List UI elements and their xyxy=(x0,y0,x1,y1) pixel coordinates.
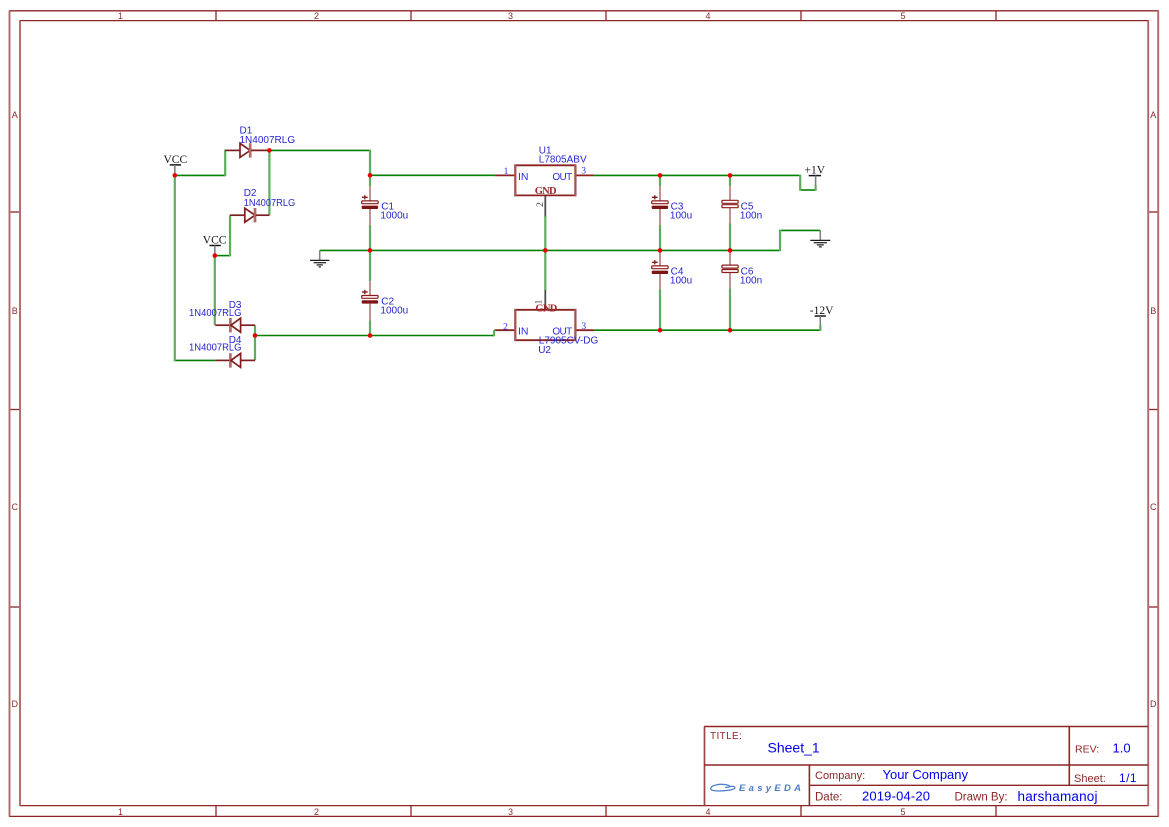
svg-text:REV:: REV: xyxy=(1075,744,1099,756)
svg-text:100u: 100u xyxy=(670,276,692,287)
junction node C5 top xyxy=(728,173,733,178)
title block xyxy=(704,727,1148,806)
svg-text:100u: 100u xyxy=(670,211,692,222)
junction node C4 bottom xyxy=(658,328,663,333)
ground symbol (left) xyxy=(310,250,329,267)
svg-text:100n: 100n xyxy=(740,276,762,287)
wire mid rail to U2 GND vertical xyxy=(544,250,546,291)
wire C1 bottom vertical xyxy=(369,225,371,251)
svg-text:4: 4 xyxy=(705,807,710,817)
svg-text:3: 3 xyxy=(508,11,513,21)
wire top rail C1 to U1 IN xyxy=(370,174,495,176)
svg-text:1.0: 1.0 xyxy=(1113,741,1131,756)
svg-text:D: D xyxy=(12,699,19,709)
svg-text:1N4007RLG: 1N4007RLG xyxy=(240,135,296,146)
diode D4 xyxy=(215,353,255,367)
wire bottom rail D3/D4 to jog xyxy=(255,335,494,337)
svg-text:A: A xyxy=(12,110,18,120)
wire U2 OUT to -12V flag xyxy=(594,329,821,331)
wire jog vertical at U2 pin2 xyxy=(493,330,495,336)
svg-text:5: 5 xyxy=(900,11,905,21)
regulator U2 body xyxy=(495,290,593,341)
junction node VCC2/D2 xyxy=(213,253,218,258)
wire D1 cathode to C1 top corner xyxy=(269,149,370,151)
svg-text:Drawn By:: Drawn By: xyxy=(955,792,1008,804)
svg-text:A: A xyxy=(1150,110,1156,120)
wire C5 bottom vertical xyxy=(729,223,731,251)
wire C4 top vertical xyxy=(659,250,661,252)
wire U1 OUT to +1V bend xyxy=(594,174,801,176)
svg-text:3: 3 xyxy=(508,807,513,817)
diode D2 xyxy=(230,208,269,222)
svg-text:2: 2 xyxy=(314,11,319,21)
wire C3 top lead vertical xyxy=(659,175,661,187)
net flag -12V xyxy=(810,305,834,325)
junction node C3/C4 mid xyxy=(658,248,663,253)
wire D1/D2 cathode vertical xyxy=(268,150,270,216)
svg-text:1000u: 1000u xyxy=(380,211,408,222)
svg-text:1: 1 xyxy=(118,807,123,817)
svg-text:VCC: VCC xyxy=(164,154,188,166)
svg-text:IN: IN xyxy=(518,171,529,183)
svg-text:1: 1 xyxy=(504,167,509,177)
capacitor C5 xyxy=(722,186,738,224)
net flag VCC (lower) xyxy=(203,234,227,254)
wire C1 top lead vertical xyxy=(369,175,371,186)
svg-text:1: 1 xyxy=(118,11,123,21)
svg-text:VCC: VCC xyxy=(203,234,227,246)
svg-text:Company:: Company: xyxy=(815,770,865,782)
EasyEDA logo xyxy=(711,783,805,794)
svg-text:GND: GND xyxy=(535,186,557,197)
wire C6 bottom vertical xyxy=(729,288,731,331)
svg-text:C: C xyxy=(12,502,19,512)
svg-text:harshamanoj: harshamanoj xyxy=(1018,789,1098,804)
svg-text:U2: U2 xyxy=(538,345,551,356)
junction node C3 top xyxy=(658,173,663,178)
wire mid rail to right ground xyxy=(780,229,820,231)
svg-text:3: 3 xyxy=(581,166,586,176)
wire VCC2 rail vertical to D3 cathode xyxy=(214,255,216,325)
ground symbol (right) xyxy=(810,230,830,247)
junction node VCC/D1 xyxy=(173,173,178,178)
junction node C6 bottom xyxy=(728,328,733,333)
svg-text:Date:: Date: xyxy=(815,792,843,804)
junction node C2 bottom xyxy=(368,333,373,338)
junction node U1 GND / mid rail xyxy=(543,248,548,253)
capacitor C2 (polarized) xyxy=(362,281,378,321)
regulator U1 body xyxy=(495,164,593,216)
svg-text:Sheet:: Sheet: xyxy=(1074,773,1106,785)
wire C5 top lead vertical xyxy=(729,175,731,187)
wire mid rail riser to right ground xyxy=(779,230,781,252)
svg-text:EasyEDA: EasyEDA xyxy=(739,783,804,794)
wire bottom-left rail to D4 cathode xyxy=(174,359,215,361)
svg-text:TITLE:: TITLE: xyxy=(710,731,742,742)
net flag +1V xyxy=(805,164,826,185)
diode D3 xyxy=(215,318,255,332)
svg-text:5: 5 xyxy=(900,807,905,817)
wire jog to U2 pin2 xyxy=(494,329,495,331)
wire C4 bottom vertical xyxy=(659,289,661,331)
svg-text:2019-04-20: 2019-04-20 xyxy=(862,789,930,804)
capacitor C4 (polarized) xyxy=(652,252,668,290)
svg-text:100n: 100n xyxy=(740,211,762,222)
wire D2 anode vertical xyxy=(229,215,231,256)
svg-text:C: C xyxy=(1150,502,1157,512)
wire +1V bend bottom xyxy=(800,189,815,191)
svg-text:1N4007RLG: 1N4007RLG xyxy=(189,308,242,319)
svg-text:Your Company: Your Company xyxy=(883,767,969,782)
svg-text:1: 1 xyxy=(535,299,545,304)
svg-text:L7805ABV: L7805ABV xyxy=(539,154,587,165)
svg-text:1/1: 1/1 xyxy=(1119,771,1137,785)
wire -12V stub vertical xyxy=(819,325,821,331)
junction node C1/C2 mid xyxy=(368,248,373,253)
wire VCC rail vertical xyxy=(174,175,176,362)
capacitor C6 xyxy=(722,252,738,289)
diode D1 xyxy=(225,143,269,157)
wire D3 anode to D4 anode vertical xyxy=(254,325,256,360)
svg-text:B: B xyxy=(12,306,18,316)
net flag VCC (top) xyxy=(164,154,188,174)
svg-text:2: 2 xyxy=(314,807,319,817)
wire C1 top corner vertical xyxy=(369,150,371,176)
svg-text:IN: IN xyxy=(518,326,529,338)
junction node D3/D4 anodes xyxy=(253,333,258,338)
wire C2 top vertical xyxy=(369,250,371,281)
junction node C1 top xyxy=(368,173,373,178)
wire vertical bend to D1 anode xyxy=(224,150,226,177)
wire VCC junction to D1 anode bend xyxy=(174,174,225,176)
svg-text:4: 4 xyxy=(705,11,710,21)
svg-text:B: B xyxy=(1150,306,1156,316)
wire mid rail ground to U-GND column xyxy=(320,249,780,251)
svg-text:+1V: +1V xyxy=(805,164,826,176)
svg-text:2: 2 xyxy=(503,323,508,333)
junction node C5/C6 mid xyxy=(728,248,733,253)
svg-text:1000u: 1000u xyxy=(380,306,408,317)
svg-text:1N4007RLG: 1N4007RLG xyxy=(189,343,242,354)
capacitor C1 (polarized) xyxy=(362,186,378,225)
wire VCC2 junction to D2 bend xyxy=(215,255,230,257)
wire C3 bottom vertical xyxy=(659,225,661,251)
svg-text:2: 2 xyxy=(536,202,546,207)
wire +1V bend vertical xyxy=(799,175,801,191)
svg-text:1N4007RLG: 1N4007RLG xyxy=(244,198,296,209)
svg-text:OUT: OUT xyxy=(552,172,572,183)
junction node D1 cathode xyxy=(267,148,272,153)
wire C2 bottom vertical xyxy=(369,320,371,336)
wire +1V stub lower vertical xyxy=(814,185,816,191)
svg-text:3: 3 xyxy=(581,322,586,332)
svg-text:D: D xyxy=(1150,699,1157,709)
svg-text:Sheet_1: Sheet_1 xyxy=(768,740,820,756)
wire C6 top vertical xyxy=(729,250,731,252)
wire U1 GND to mid rail vertical xyxy=(544,216,546,251)
capacitor C3 (polarized) xyxy=(652,186,668,225)
